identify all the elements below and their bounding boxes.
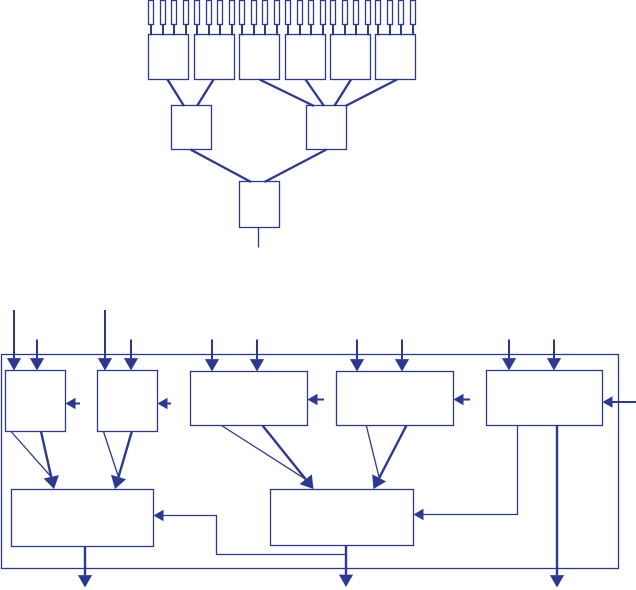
arrow U2 input 1 [98, 310, 112, 371]
input cell D1 [286, 1, 291, 25]
wire cell B4 to box B [231, 25, 233, 36]
wire cell C3 to box C [264, 25, 266, 36]
input cell B3 [218, 1, 223, 25]
arrow U5 input 2 [547, 340, 561, 371]
level-1 box C [240, 35, 280, 80]
wire cell C2 to box C [253, 25, 255, 36]
input cell B4 [230, 1, 235, 25]
wire cell E2 to box E [344, 25, 346, 36]
wire cell E4 to box E [367, 25, 369, 36]
input cell D2 [298, 1, 303, 25]
wire box B to box G [197, 80, 214, 107]
input cell E3 [354, 1, 359, 25]
wire cell F4 to box F [412, 25, 414, 36]
input cell C4 [275, 1, 280, 25]
input cell D4 [321, 1, 326, 25]
wire box E to box H [334, 80, 351, 107]
level-1 box F [376, 35, 416, 80]
wire cell F2 to box F [389, 25, 391, 36]
input cell A1 [149, 1, 154, 25]
unit box U4 [337, 372, 454, 426]
wire box C to box H [260, 80, 315, 107]
arrow U2 input 2 [124, 340, 138, 371]
input cell D3 [309, 1, 314, 25]
input cell F4 [411, 1, 416, 25]
wide box W1 [12, 490, 154, 547]
arrow U3 input 2 [250, 340, 264, 372]
wire cell B1 to box B [196, 25, 198, 36]
arrow U5 main output down [550, 426, 564, 588]
wire cell B2 to box B [208, 25, 210, 36]
wire cell B3 to box B [219, 25, 221, 36]
input cell E1 [331, 1, 336, 25]
arrow U4 input 1 [350, 340, 364, 372]
level-2 box G [172, 106, 212, 150]
arrow U2 to W1 [104, 432, 132, 490]
wire box D to box H [306, 80, 325, 107]
wire cell D4 to box D [322, 25, 324, 36]
wire box H to box J [265, 150, 327, 183]
wire cell A2 to box A [162, 25, 164, 36]
wire cell A3 to box A [173, 25, 175, 36]
arrow U1 input 1 [7, 310, 21, 371]
input cell B1 [195, 1, 200, 25]
input cell A4 [184, 1, 189, 25]
wire box J output [258, 228, 260, 248]
arrow W1 output down [78, 547, 92, 588]
arrow U1 to W1 [11, 432, 59, 490]
unit box U5 [487, 371, 603, 426]
arrow U3 input 1 [205, 340, 219, 372]
arrow U3 side input [308, 394, 325, 406]
input cell B2 [207, 1, 212, 25]
unit box U3 [191, 372, 308, 426]
input cell F2 [388, 1, 393, 25]
input cell E2 [343, 1, 348, 25]
outer enclosure box [2, 355, 619, 569]
wire cell F3 to box F [400, 25, 402, 36]
input cell C1 [240, 1, 245, 25]
arrow U5 side input [603, 396, 636, 408]
level-1 box E [331, 35, 371, 80]
wide box W2 [271, 490, 414, 546]
wire box A to box G [168, 80, 185, 107]
arrow U1 side input [66, 398, 81, 410]
input cell F1 [376, 1, 381, 25]
arrow U4 to W2 [366, 426, 406, 490]
arrow W2 output down [339, 546, 353, 588]
wire box F to box H [346, 80, 398, 107]
wire cell C4 to box C [276, 25, 278, 36]
wire cell F1 to box F [377, 25, 379, 36]
arrow U4 input 2 [395, 340, 409, 372]
wire cell A1 to box A [150, 25, 152, 36]
input cell A2 [161, 1, 166, 25]
level-1 box B [195, 35, 235, 80]
level-3 box J [240, 182, 280, 228]
wire W2 to W1 elbow with arrow [154, 510, 347, 555]
level-2 box H [307, 106, 347, 150]
wire cell E1 to box E [332, 25, 334, 36]
wire cell D3 to box D [310, 25, 312, 36]
input cell C3 [263, 1, 268, 25]
wire box G to box J [191, 150, 252, 183]
wire cell D1 to box D [287, 25, 289, 36]
arrow U5 input 1 [502, 340, 516, 371]
level-1 box A [149, 35, 189, 80]
level-1 box D [286, 35, 326, 80]
wire cell A4 to box A [185, 25, 187, 36]
arrow U1 input 2 [30, 340, 44, 371]
unit box U2 [98, 371, 158, 432]
input cell A3 [172, 1, 177, 25]
arrow U4 side input [454, 394, 471, 406]
wire cell E3 to box E [355, 25, 357, 36]
wire U5 to W2 elbow with arrow [414, 426, 518, 521]
input cell F3 [399, 1, 404, 25]
wire cell D2 to box D [299, 25, 301, 36]
unit box U1 [6, 371, 66, 432]
input cell E4 [366, 1, 371, 25]
input cell C2 [252, 1, 257, 25]
arrow U3 to W2 [222, 426, 314, 490]
wire cell C1 to box C [241, 25, 243, 36]
arrow U2 side input [158, 398, 172, 410]
